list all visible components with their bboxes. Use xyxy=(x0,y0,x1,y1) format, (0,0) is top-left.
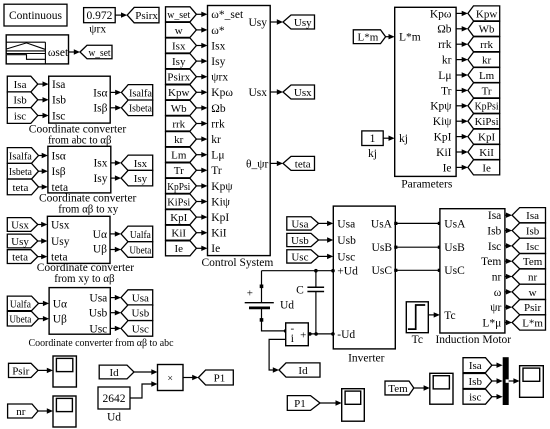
from tag Isy (control input 4) xyxy=(166,54,197,69)
svg-text:Usx: Usx xyxy=(51,220,70,232)
goto tag w_set xyxy=(80,45,112,59)
svg-text:ψrx: ψrx xyxy=(211,72,228,84)
wire Tem out of motor xyxy=(505,260,507,262)
from tag Ualfa xyxy=(7,296,38,311)
constant block 0.972 xyxy=(84,8,116,23)
svg-text:i: i xyxy=(291,333,294,345)
wire nr out of motor xyxy=(505,276,507,278)
wire Wb out of Parameters xyxy=(456,28,463,30)
svg-text:Isb: Isb xyxy=(487,225,501,237)
svg-text:nr: nr xyxy=(528,271,538,283)
from tag Isx (control input 3) xyxy=(166,38,197,53)
svg-text:rrk: rrk xyxy=(480,39,493,51)
svg-text:Ud: Ud xyxy=(107,412,121,424)
wire teta to converter2 xyxy=(39,186,43,188)
capacitor C top lead xyxy=(315,271,317,287)
wire Kpw out of Parameters xyxy=(456,12,463,14)
svg-text:kj: kj xyxy=(399,133,408,145)
wire product to P1 xyxy=(183,377,193,379)
svg-text:KiI: KiI xyxy=(436,147,452,159)
wire Tem to scope xyxy=(414,387,425,389)
from tag KiI (control input 15) xyxy=(166,225,197,240)
scope P1 xyxy=(342,389,365,422)
scope Tem xyxy=(430,373,453,404)
svg-text:Usa: Usa xyxy=(132,293,149,305)
svg-text:KiI: KiI xyxy=(171,228,186,240)
svg-text:Isα: Isα xyxy=(52,150,66,162)
svg-text:Isy: Isy xyxy=(211,56,225,68)
svg-text:Isc: Isc xyxy=(526,241,539,253)
svg-text:+: + xyxy=(300,329,306,341)
svg-text:Usb: Usb xyxy=(291,235,309,247)
constant block 2642 xyxy=(98,387,130,409)
from tag w_set (control input 1) xyxy=(166,7,197,22)
junction dot sensor output xyxy=(308,332,312,336)
from tag Usx xyxy=(7,218,38,232)
step block Tc xyxy=(406,302,428,333)
svg-text:Isa: Isa xyxy=(14,79,27,91)
wire Isalpha to Isalfa xyxy=(110,91,116,93)
wire teta out xyxy=(270,162,278,164)
svg-text:w_set: w_set xyxy=(167,9,190,21)
svg-text:L*μ: L*μ xyxy=(482,317,501,329)
svg-text:Ie: Ie xyxy=(482,162,491,174)
capacitor C bottom lead xyxy=(315,292,317,334)
svg-text:Psir: Psir xyxy=(12,365,29,377)
block Coordinate converter from alpha-beta to xy xyxy=(48,146,111,193)
svg-text:Usa: Usa xyxy=(291,218,308,230)
svg-text:Usc: Usc xyxy=(132,323,149,335)
from tag Tem xyxy=(385,381,414,395)
svg-text:Isb: Isb xyxy=(526,225,540,237)
wire wset to w_set xyxy=(69,51,75,53)
svg-text:KpPsi: KpPsi xyxy=(475,101,499,113)
svg-text:w: w xyxy=(175,25,183,37)
wire KiPsi to Control System xyxy=(196,201,202,203)
junction dot capacitor top xyxy=(314,269,318,273)
from tag Lm (control input 10) xyxy=(166,147,197,162)
svg-text:Kiψ: Kiψ xyxy=(211,196,231,208)
wire Psir to scope xyxy=(38,369,48,371)
svg-text:C: C xyxy=(296,284,304,296)
wire +Ud rail xyxy=(262,270,334,272)
svg-text:Psirx: Psirx xyxy=(135,10,158,22)
svg-text:+Ud: +Ud xyxy=(337,266,358,278)
wire current measurement to Id xyxy=(269,339,286,370)
goto tag Tem (motor output) xyxy=(512,254,545,269)
svg-text:Isa: Isa xyxy=(526,210,539,222)
goto tag Kpw (parameter output) xyxy=(468,6,500,21)
wire Isbeta to Isbeta xyxy=(110,107,116,109)
svg-text:Uβ: Uβ xyxy=(53,314,67,326)
block Coordinate converter from abc to alpha-beta xyxy=(49,76,110,123)
svg-text:Isy: Isy xyxy=(134,173,148,185)
goto tag Ubeta xyxy=(121,242,153,258)
wire Usc to Inverter xyxy=(319,255,329,257)
svg-text:KiI: KiI xyxy=(211,228,227,240)
svg-text:Uα: Uα xyxy=(53,298,67,310)
wire KpI out of Parameters xyxy=(456,136,463,138)
svg-text:P1: P1 xyxy=(214,372,226,384)
wire kj to Parameters xyxy=(383,137,389,139)
wire teta to converter3 xyxy=(38,256,42,258)
wire UsC phase xyxy=(395,269,440,271)
svg-text:KpI: KpI xyxy=(434,132,452,144)
svg-text:Ie: Ie xyxy=(443,162,452,174)
wire Isa to converter1 xyxy=(38,83,44,85)
svg-text:+: + xyxy=(247,288,253,300)
wire Usy out xyxy=(270,21,278,23)
wire Ie to Control System xyxy=(196,247,202,249)
wire Tc to motor xyxy=(428,314,434,316)
wire w to Control System xyxy=(196,29,202,31)
svg-text:Tc: Tc xyxy=(412,334,423,346)
svg-text:Kpψ: Kpψ xyxy=(430,101,452,113)
goto tag Psirx xyxy=(127,7,159,22)
signal builder step wave xyxy=(7,55,45,60)
svg-text:L*m: L*m xyxy=(399,32,421,44)
svg-text:Tem: Tem xyxy=(523,256,543,268)
signal builder block wset xyxy=(6,35,68,64)
battery Ud positive plate xyxy=(245,302,274,304)
svg-text:kr: kr xyxy=(174,134,184,146)
svg-text:Tr: Tr xyxy=(174,165,184,177)
svg-text:kj: kj xyxy=(368,148,377,160)
svg-text:KpI: KpI xyxy=(478,132,495,144)
from tag Psirx (control input 5) xyxy=(166,69,197,84)
wire Isx out xyxy=(111,162,116,164)
svg-text:Ωb: Ωb xyxy=(211,103,226,115)
product block x xyxy=(158,365,184,391)
wire isc to mux xyxy=(492,396,498,398)
svg-text:Usc: Usc xyxy=(89,323,107,335)
svg-text:Coordinate converter from αβ t: Coordinate converter from αβ to abc xyxy=(29,337,174,349)
svg-text:isc: isc xyxy=(14,110,26,122)
goto tag Id xyxy=(279,363,320,377)
wire Isbeta to converter2 xyxy=(39,170,43,172)
goto tag Isbeta xyxy=(121,100,152,116)
svg-text:×: × xyxy=(167,373,173,384)
svg-text:KpI: KpI xyxy=(170,212,187,224)
svg-text:Id: Id xyxy=(110,367,120,379)
scope nr xyxy=(53,396,76,427)
from tag Isalfa xyxy=(7,148,38,164)
svg-text:teta: teta xyxy=(12,252,28,264)
svg-text:Parameters: Parameters xyxy=(401,178,453,190)
from tag Ie (control input 16) xyxy=(166,241,197,256)
svg-text:rrk: rrk xyxy=(438,39,452,51)
svg-text:Usy: Usy xyxy=(11,236,29,248)
svg-text:0.972: 0.972 xyxy=(86,10,112,22)
svg-text:Induction Motor: Induction Motor xyxy=(435,334,511,346)
wire 0.972 to Psirx xyxy=(115,14,122,16)
from tag Tr (control input 11) xyxy=(166,163,197,178)
svg-text:Isb: Isb xyxy=(13,95,27,107)
svg-text:Usa: Usa xyxy=(337,218,355,230)
goto tag Usa xyxy=(121,290,153,306)
wire Isb out of motor xyxy=(505,230,507,232)
svg-text:UsC: UsC xyxy=(444,265,465,277)
svg-text:w: w xyxy=(529,287,537,299)
svg-text:UsA: UsA xyxy=(371,218,393,230)
wire kr to Control System xyxy=(196,138,202,140)
wire Isa to mux xyxy=(492,364,498,366)
svg-text:Isb: Isb xyxy=(52,95,66,107)
svg-text:rrk: rrk xyxy=(211,118,225,130)
wire P1 to scope xyxy=(320,402,337,404)
svg-text:Tr: Tr xyxy=(211,165,222,177)
block Inverter xyxy=(333,206,395,349)
from tag Isb xyxy=(7,92,38,108)
from tag Ubeta xyxy=(7,311,38,326)
wire Usc out xyxy=(110,327,116,329)
svg-text:Kpw: Kpw xyxy=(476,8,497,20)
svg-text:ω*_set: ω*_set xyxy=(211,9,244,21)
svg-text:UsA: UsA xyxy=(444,218,466,230)
wire L*m to Parameters xyxy=(386,36,390,38)
svg-text:Uα: Uα xyxy=(93,229,107,241)
goto tag Usy xyxy=(283,15,315,29)
svg-text:Usb: Usb xyxy=(89,308,108,320)
goto tag Isc (motor output) xyxy=(512,238,545,253)
block Parameters xyxy=(395,7,456,176)
wire battery positive drop xyxy=(261,271,263,303)
svg-text:KpI: KpI xyxy=(211,212,229,224)
svg-text:Kpω: Kpω xyxy=(211,87,233,99)
wire isc to converter1 xyxy=(38,115,44,117)
svg-text:ψr: ψr xyxy=(490,302,501,314)
capacitor C plates xyxy=(307,286,324,288)
goto tag kr (parameter output) xyxy=(468,52,500,67)
wire Ubeta to converter4 xyxy=(39,318,44,320)
junction dot +Ud at inverter xyxy=(331,269,335,273)
wire Ualfa to converter4 xyxy=(39,302,44,304)
svg-text:Isa: Isa xyxy=(469,360,482,372)
goto tag Isx xyxy=(121,155,153,171)
wire Usx to converter3 xyxy=(38,224,42,226)
from tag Kpw (control input 6) xyxy=(166,85,197,100)
goto tag Wb (parameter output) xyxy=(468,21,500,36)
block Continuous (solver annotation) xyxy=(4,4,67,26)
svg-text:nr: nr xyxy=(16,406,26,418)
from tag kr (control input 9) xyxy=(166,132,197,147)
svg-text:Isb: Isb xyxy=(469,376,483,388)
goto tag Isb (motor output) xyxy=(512,223,545,238)
svg-text:Isbeta: Isbeta xyxy=(9,166,32,178)
wire Psir out of motor xyxy=(505,306,507,308)
goto tag P1 xyxy=(198,370,233,385)
goto tag nr (motor output) xyxy=(512,269,545,284)
current sensor block i xyxy=(286,323,309,346)
svg-text:Kiψ: Kiψ xyxy=(433,116,453,128)
svg-text:ω*: ω* xyxy=(211,25,225,37)
battery Ud negative plate xyxy=(249,306,270,309)
svg-text:Isalfa: Isalfa xyxy=(9,150,32,162)
goto tag rrk (parameter output) xyxy=(468,37,500,52)
wire KpPsi out of Parameters xyxy=(456,105,463,107)
svg-text:UsB: UsB xyxy=(372,242,393,254)
goto tag KiI (parameter output) xyxy=(468,145,500,160)
wire Isc out of motor xyxy=(505,245,507,247)
wire KiI to Control System xyxy=(196,232,202,234)
wire rrk to Control System xyxy=(196,123,202,125)
from tag KiPsi (control input 13) xyxy=(166,194,197,209)
svg-text:Ud: Ud xyxy=(280,300,294,312)
from tag Usy xyxy=(7,234,38,248)
wire Usb out xyxy=(110,312,116,314)
svg-text:Tem: Tem xyxy=(481,256,501,268)
step waveform xyxy=(408,305,425,329)
svg-text:KiPsi: KiPsi xyxy=(167,196,190,208)
svg-text:Lμ: Lμ xyxy=(438,70,451,82)
svg-text:Tr: Tr xyxy=(441,85,452,97)
svg-text:kr: kr xyxy=(442,55,452,67)
block Control System xyxy=(208,6,271,256)
svg-text:Usy: Usy xyxy=(294,17,312,29)
wire Isb to mux xyxy=(492,380,498,382)
svg-text:Ie: Ie xyxy=(174,243,183,255)
svg-text:w_set: w_set xyxy=(89,47,111,59)
wire Tr to Control System xyxy=(196,169,202,171)
svg-text:Isc: Isc xyxy=(488,241,501,253)
svg-text:Usx: Usx xyxy=(11,219,29,231)
wire Usa to Inverter xyxy=(319,222,329,224)
from tag Usb xyxy=(287,233,319,246)
from tag Isbeta xyxy=(7,163,38,179)
from tag Isa (scope) xyxy=(463,358,492,373)
svg-text:UsB: UsB xyxy=(444,242,465,254)
svg-text:isc: isc xyxy=(469,392,481,404)
from tag teta 2 xyxy=(7,250,38,264)
svg-text:Ualfa: Ualfa xyxy=(130,229,151,241)
wire w_set to Control System xyxy=(196,13,202,15)
wire current sensor to -Ud xyxy=(308,333,333,335)
from tag KpI (control input 14) xyxy=(166,210,197,225)
svg-text:Uβ: Uβ xyxy=(93,243,107,255)
svg-text:kr: kr xyxy=(211,134,221,146)
wire Lm to Control System xyxy=(196,154,202,156)
svg-text:KiPsi: KiPsi xyxy=(475,116,499,128)
svg-text:Isα: Isα xyxy=(93,87,107,99)
svg-text:ωset: ωset xyxy=(48,47,69,59)
svg-text:Wb: Wb xyxy=(171,103,187,115)
svg-text:L*m: L*m xyxy=(522,317,543,329)
svg-text:P1: P1 xyxy=(294,398,306,410)
svg-text:Usc: Usc xyxy=(291,251,308,263)
block Induction Motor xyxy=(440,209,505,333)
from tag Wb (control input 7) xyxy=(166,100,197,115)
goto tag Usc xyxy=(121,321,153,337)
svg-text:θ_ψr: θ_ψr xyxy=(246,159,268,171)
svg-text:teta: teta xyxy=(295,158,311,170)
svg-text:Usc: Usc xyxy=(337,251,355,263)
svg-text:nr: nr xyxy=(492,271,502,283)
from tag teta xyxy=(7,179,38,195)
svg-text:Control System: Control System xyxy=(201,257,273,269)
wire w out of motor xyxy=(505,291,507,293)
svg-text:from xy to αβ: from xy to αβ xyxy=(54,273,115,285)
from tag L*m (parameters input) xyxy=(353,30,385,44)
wire Tr out of Parameters xyxy=(456,89,463,91)
wire Ubeta out xyxy=(110,249,116,251)
junction square on battery wire upper xyxy=(260,285,264,289)
wire Isalfa to converter2 xyxy=(39,155,43,157)
from tag Isa xyxy=(7,76,38,92)
svg-text:Isβ: Isβ xyxy=(52,166,66,178)
goto tag Ualfa xyxy=(121,226,153,242)
from tag w (control input 2) xyxy=(166,22,197,37)
junction square on battery wire lower xyxy=(260,318,264,322)
goto tag teta xyxy=(283,156,315,170)
svg-text:KiI: KiI xyxy=(479,147,494,159)
from tag Usa xyxy=(287,217,319,230)
svg-text:Lm: Lm xyxy=(479,70,495,82)
svg-text:Isx: Isx xyxy=(93,158,107,170)
junction dot -Ud at inverter xyxy=(331,332,335,336)
svg-text:Psir: Psir xyxy=(524,302,541,314)
goto tag KpI (parameter output) xyxy=(468,129,500,144)
svg-text:Continuous: Continuous xyxy=(9,10,63,22)
mux block xyxy=(503,357,509,405)
wire 2642 to product xyxy=(130,384,152,398)
svg-text:Inverter: Inverter xyxy=(348,352,385,364)
svg-text:rrk: rrk xyxy=(172,118,185,130)
svg-text:Ωb: Ωb xyxy=(437,24,452,36)
svg-text:Ualfa: Ualfa xyxy=(10,298,31,310)
svg-text:Isy: Isy xyxy=(172,56,186,68)
scope Psir xyxy=(53,356,76,387)
block Coordinate converter from alpha-beta to abc xyxy=(49,288,110,335)
svg-text:from αβ to xy: from αβ to xy xyxy=(58,204,118,216)
from tag KpPsi (control input 12) xyxy=(166,178,197,193)
wire Usx out xyxy=(270,91,278,93)
svg-text:Isa: Isa xyxy=(488,210,501,222)
wire battery negative to current sensor xyxy=(262,309,286,331)
wire Lm out of Parameters xyxy=(456,74,463,76)
svg-text:Ubeta: Ubeta xyxy=(129,244,151,256)
svg-text:Wb: Wb xyxy=(479,24,495,36)
wire Id to product xyxy=(134,371,152,373)
svg-text:ψrx: ψrx xyxy=(89,24,106,36)
wire Usb to Inverter xyxy=(319,239,329,241)
from tag Usc xyxy=(287,250,319,263)
svg-text:Ubeta: Ubeta xyxy=(9,314,31,326)
wire Psirx to Control System xyxy=(196,76,202,78)
svg-text:Isa: Isa xyxy=(52,79,65,91)
from tag Id xyxy=(99,365,134,379)
svg-text:UsC: UsC xyxy=(372,265,393,277)
wire KpPsi to Control System xyxy=(196,185,202,187)
wire Isy out xyxy=(111,177,116,179)
from tag isc (scope) xyxy=(463,389,492,404)
svg-text:Isc: Isc xyxy=(52,110,65,122)
svg-text:Usy: Usy xyxy=(51,236,70,248)
goto tag Lm (parameter output) xyxy=(468,68,500,83)
svg-text:Kpω: Kpω xyxy=(430,8,452,20)
svg-text:Lm: Lm xyxy=(171,150,187,162)
signal builder inner frame xyxy=(6,41,45,43)
svg-text:Tc: Tc xyxy=(444,310,455,322)
signal builder triangle wave xyxy=(7,43,45,49)
svg-text:Isx: Isx xyxy=(211,40,225,52)
goto tag Ie (parameter output) xyxy=(468,160,500,175)
svg-text:Id: Id xyxy=(298,365,308,377)
svg-text:Isx: Isx xyxy=(172,40,186,52)
svg-text:2642: 2642 xyxy=(103,393,126,405)
svg-text:-Ud: -Ud xyxy=(337,329,355,341)
svg-text:KpPsi: KpPsi xyxy=(167,181,190,193)
svg-text:Isx: Isx xyxy=(134,158,148,170)
